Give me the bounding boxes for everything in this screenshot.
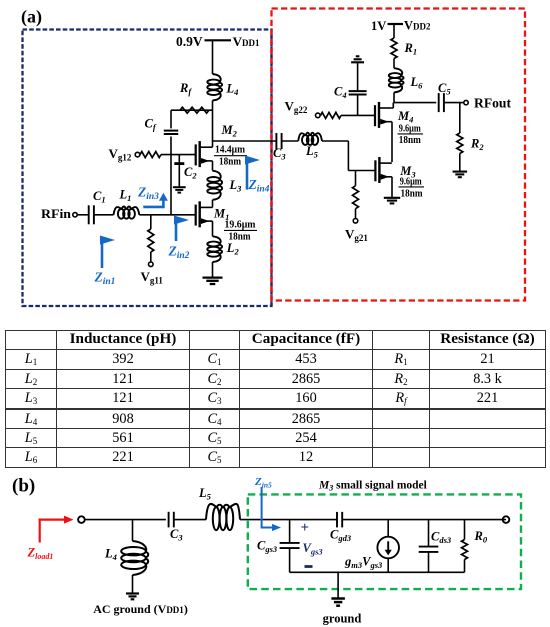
label Vg21: [345, 227, 368, 244]
transistor M3: [375, 157, 391, 183]
label M1 size: [224, 220, 257, 243]
wire M4 drain to node: [391, 103, 393, 108]
capacitor C1: [89, 205, 94, 224]
svg-text:Zin5: Zin5: [254, 476, 272, 490]
wire M1 drain to L3: [211, 200, 214, 208]
wire R0 upper: [464, 520, 466, 540]
terminal input b: [78, 516, 85, 523]
label Zin4: [248, 177, 270, 195]
wire L6 to output node: [393, 92, 395, 102]
label Cf: [145, 117, 157, 133]
label Vg12: [109, 146, 132, 163]
transistor M2: [196, 141, 212, 167]
transistor M4: [375, 102, 391, 128]
ground C2: [173, 187, 186, 192]
wire M4 source to M3 drain: [390, 122, 393, 162]
label Cds3: [431, 530, 452, 546]
label ground: [323, 612, 362, 626]
capacitor Cgd3: [337, 512, 342, 528]
impedance arrow Zin1: [100, 236, 115, 269]
wire L5 to M3 gate: [322, 141, 375, 171]
wire M2 drain to node: [211, 141, 214, 147]
wire resistor to Vg11 terminal: [150, 252, 152, 262]
wire drain node to C3: [213, 140, 277, 142]
wire C4 to M4 gate line: [357, 95, 359, 115]
svg-text:gm3Vgs3: gm3Vgs3: [344, 554, 383, 570]
svg-text:Cgd3: Cgd3: [330, 528, 352, 544]
label M4: [397, 109, 413, 125]
label C3 b: [170, 527, 183, 543]
capacitor C2: [174, 162, 184, 165]
terminal RFin: [73, 213, 77, 217]
label Zin5: [254, 476, 272, 490]
inductor L4 shunt: [121, 541, 148, 575]
first-stage boundary blue dashed box: [23, 30, 272, 307]
resistor R1: [391, 38, 397, 59]
label C4: [334, 85, 347, 101]
label Cgd3: [330, 528, 352, 544]
wire C1 to L1: [94, 214, 114, 216]
wire Cds3 upper: [428, 520, 430, 547]
impedance arrow Zin2: [174, 216, 189, 242]
wire ground to C4: [357, 62, 359, 90]
label Zin3: [137, 185, 159, 203]
resistor R0: [462, 540, 468, 560]
polarity minus: [305, 565, 313, 568]
resistor Vg22 bias: [321, 112, 342, 118]
svg-text:(b): (b): [12, 476, 35, 497]
resistor Vg11 bias: [148, 229, 154, 252]
label C1: [93, 189, 106, 205]
wire Cf to M2 gate line: [170, 137, 172, 155]
svg-text:L4: L4: [104, 547, 117, 563]
wire Rf horizontal: [171, 109, 213, 111]
capacitor C3 series b: [169, 512, 174, 528]
supply label VDD1: [233, 34, 260, 49]
wire Cgs3 lower: [289, 548, 291, 572]
ground AC VDD1: [126, 594, 139, 600]
label R0: [474, 529, 488, 545]
wire M3 source to ground: [391, 177, 393, 198]
wire Vg12 to M2 gate: [161, 154, 196, 156]
impedance arrow Zload1: [39, 516, 74, 543]
wire Vg22 to M4 gate: [341, 114, 375, 116]
svg-text:AC ground (VDD1): AC ground (VDD1): [93, 602, 188, 616]
wire L2 to ground: [212, 262, 214, 278]
svg-text:C3: C3: [170, 527, 183, 543]
label L5 b: [198, 486, 212, 502]
label M3 small signal model: [318, 480, 427, 493]
svg-text:Vgs3: Vgs3: [303, 541, 324, 557]
label C5: [438, 81, 451, 97]
wire current source upper: [387, 520, 389, 537]
label Cgs3: [257, 539, 278, 555]
capacitor Cf: [164, 131, 178, 134]
ground R2: [453, 172, 468, 178]
label L4: [226, 82, 239, 98]
svg-text:L5: L5: [198, 486, 212, 502]
terminal RFout: [464, 100, 468, 104]
supply label VDD2: [404, 19, 431, 33]
inductor L3: [207, 171, 222, 200]
capacitor C5: [439, 93, 444, 112]
terminal Vg12: [135, 152, 140, 157]
wire R0 lower: [464, 560, 466, 573]
svg-text:Cgs3: Cgs3: [257, 539, 278, 555]
wire M2 source to L3: [211, 161, 214, 171]
second-stage boundary red dashed box: [272, 9, 526, 301]
wire node to R2: [459, 103, 461, 133]
small signal model green dashed box: [248, 494, 521, 589]
ground M3 source: [384, 198, 400, 204]
capacitor Cgs3: [280, 543, 300, 548]
wire Cf node down to M1 gate line: [170, 155, 172, 215]
wire input to C3: [85, 519, 166, 521]
svg-text:Zload1: Zload1: [27, 546, 54, 562]
wire L1 to M1 gate: [139, 214, 195, 216]
impedance arrow Zin4: [245, 156, 260, 190]
label M2 size: [214, 145, 247, 168]
label R2: [470, 137, 484, 153]
wire node to L4: [132, 520, 134, 541]
svg-text:ground: ground: [323, 612, 362, 626]
wire Cds3 lower: [428, 552, 430, 573]
ground b: [331, 599, 345, 606]
resistor R2: [457, 133, 463, 154]
label L1: [119, 188, 132, 204]
component value table: [5, 330, 546, 468]
terminal Vg22: [316, 113, 321, 118]
wire bottom rail: [290, 571, 465, 573]
wire M3 drain to M4 source: [391, 162, 393, 164]
svg-text:+: +: [301, 520, 310, 536]
impedance arrow Zin5: [261, 487, 281, 531]
transistor M1: [196, 201, 212, 227]
boundary overlap navy dashes: [270, 30, 272, 307]
label R1: [404, 41, 418, 57]
label M3: [399, 164, 416, 180]
wire C5 to RFout: [444, 102, 464, 104]
wire current source lower: [387, 558, 389, 572]
label Vg22: [285, 99, 308, 116]
supply label 0.9V: [176, 34, 203, 49]
wire resistor to Vg21 terminal: [355, 209, 357, 219]
wire top rail left: [290, 519, 338, 521]
svg-text:Cds3: Cds3: [431, 530, 452, 546]
wire L5 to Cgs3 node: [240, 519, 290, 521]
label L6: [410, 75, 424, 91]
wire VDD1 to L4: [212, 40, 214, 74]
label AC ground VDD1: [93, 602, 188, 616]
ground M1 source: [203, 278, 223, 284]
figure label (a): [21, 7, 42, 28]
wire C2 stub: [178, 155, 180, 187]
resistor Vg12 bias: [140, 152, 161, 158]
inductor L6: [389, 68, 404, 92]
label Vgs3: [303, 541, 324, 557]
label Rf: [179, 81, 192, 97]
inductor L4: [207, 74, 222, 101]
label M3 size: [399, 176, 425, 199]
wire RFin to C1: [77, 214, 88, 216]
wire L4 to AC ground: [132, 575, 134, 594]
label M4 size: [398, 124, 424, 146]
terminal Vg11: [149, 262, 154, 267]
label Vg11: [141, 269, 164, 286]
ground above C4: [351, 56, 364, 62]
label gm3Vgs3: [344, 554, 383, 570]
supply tick VDD1: [205, 39, 232, 41]
wire VDD2 to R1: [393, 24, 395, 38]
label Zload1: [27, 546, 54, 562]
label M2: [221, 123, 238, 139]
svg-text:R0: R0: [474, 529, 488, 545]
svg-text:M3 small signal model: M3 small signal model: [318, 480, 427, 493]
terminal Vg21: [353, 219, 358, 224]
inductor L1: [114, 207, 140, 219]
figure label (b): [12, 476, 35, 497]
supply tick VDD2: [388, 23, 404, 25]
label RFout: [474, 96, 512, 111]
label C2: [184, 165, 197, 181]
wire R1 to L6: [393, 59, 395, 69]
inductor L5: [298, 133, 322, 145]
resistor Vg21 bias: [353, 186, 359, 209]
wire M1 source to L2: [211, 221, 214, 236]
capacitor C4: [349, 91, 367, 94]
label RFin: [41, 206, 72, 221]
wire R2 to ground: [459, 154, 461, 172]
label M1: [213, 206, 229, 222]
terminal output b: [503, 516, 510, 523]
label Zin1: [94, 270, 116, 288]
inductor L2: [207, 236, 222, 262]
current source gm3Vgs3: [377, 537, 399, 559]
wire node to C5: [394, 102, 436, 104]
impedance arrow Zin3: [143, 193, 168, 208]
wire node to Vg11 resistor: [150, 215, 152, 229]
wire junction to Vg21: [355, 171, 357, 186]
supply label 1V: [371, 19, 386, 33]
capacitor C3: [276, 133, 281, 149]
wire C3 to L5: [174, 519, 206, 521]
label L3: [229, 178, 243, 194]
label L2: [226, 241, 240, 257]
label Zin2: [168, 244, 190, 262]
wire ground stub b: [337, 572, 339, 598]
wire Cgs3 upper: [289, 520, 291, 543]
label L4 b: [104, 547, 117, 563]
inductor L5 series b: [206, 504, 240, 530]
wire top rail right: [342, 519, 506, 521]
label C3: [273, 146, 286, 162]
resistor Rf: [180, 107, 209, 113]
wire L4 to drain node: [212, 101, 214, 142]
label L5: [305, 144, 319, 160]
wire C3 to L5: [282, 140, 299, 142]
capacitor Cds3: [419, 547, 439, 552]
polarity plus: [301, 520, 310, 536]
wire Rf to Cf: [170, 110, 172, 128]
